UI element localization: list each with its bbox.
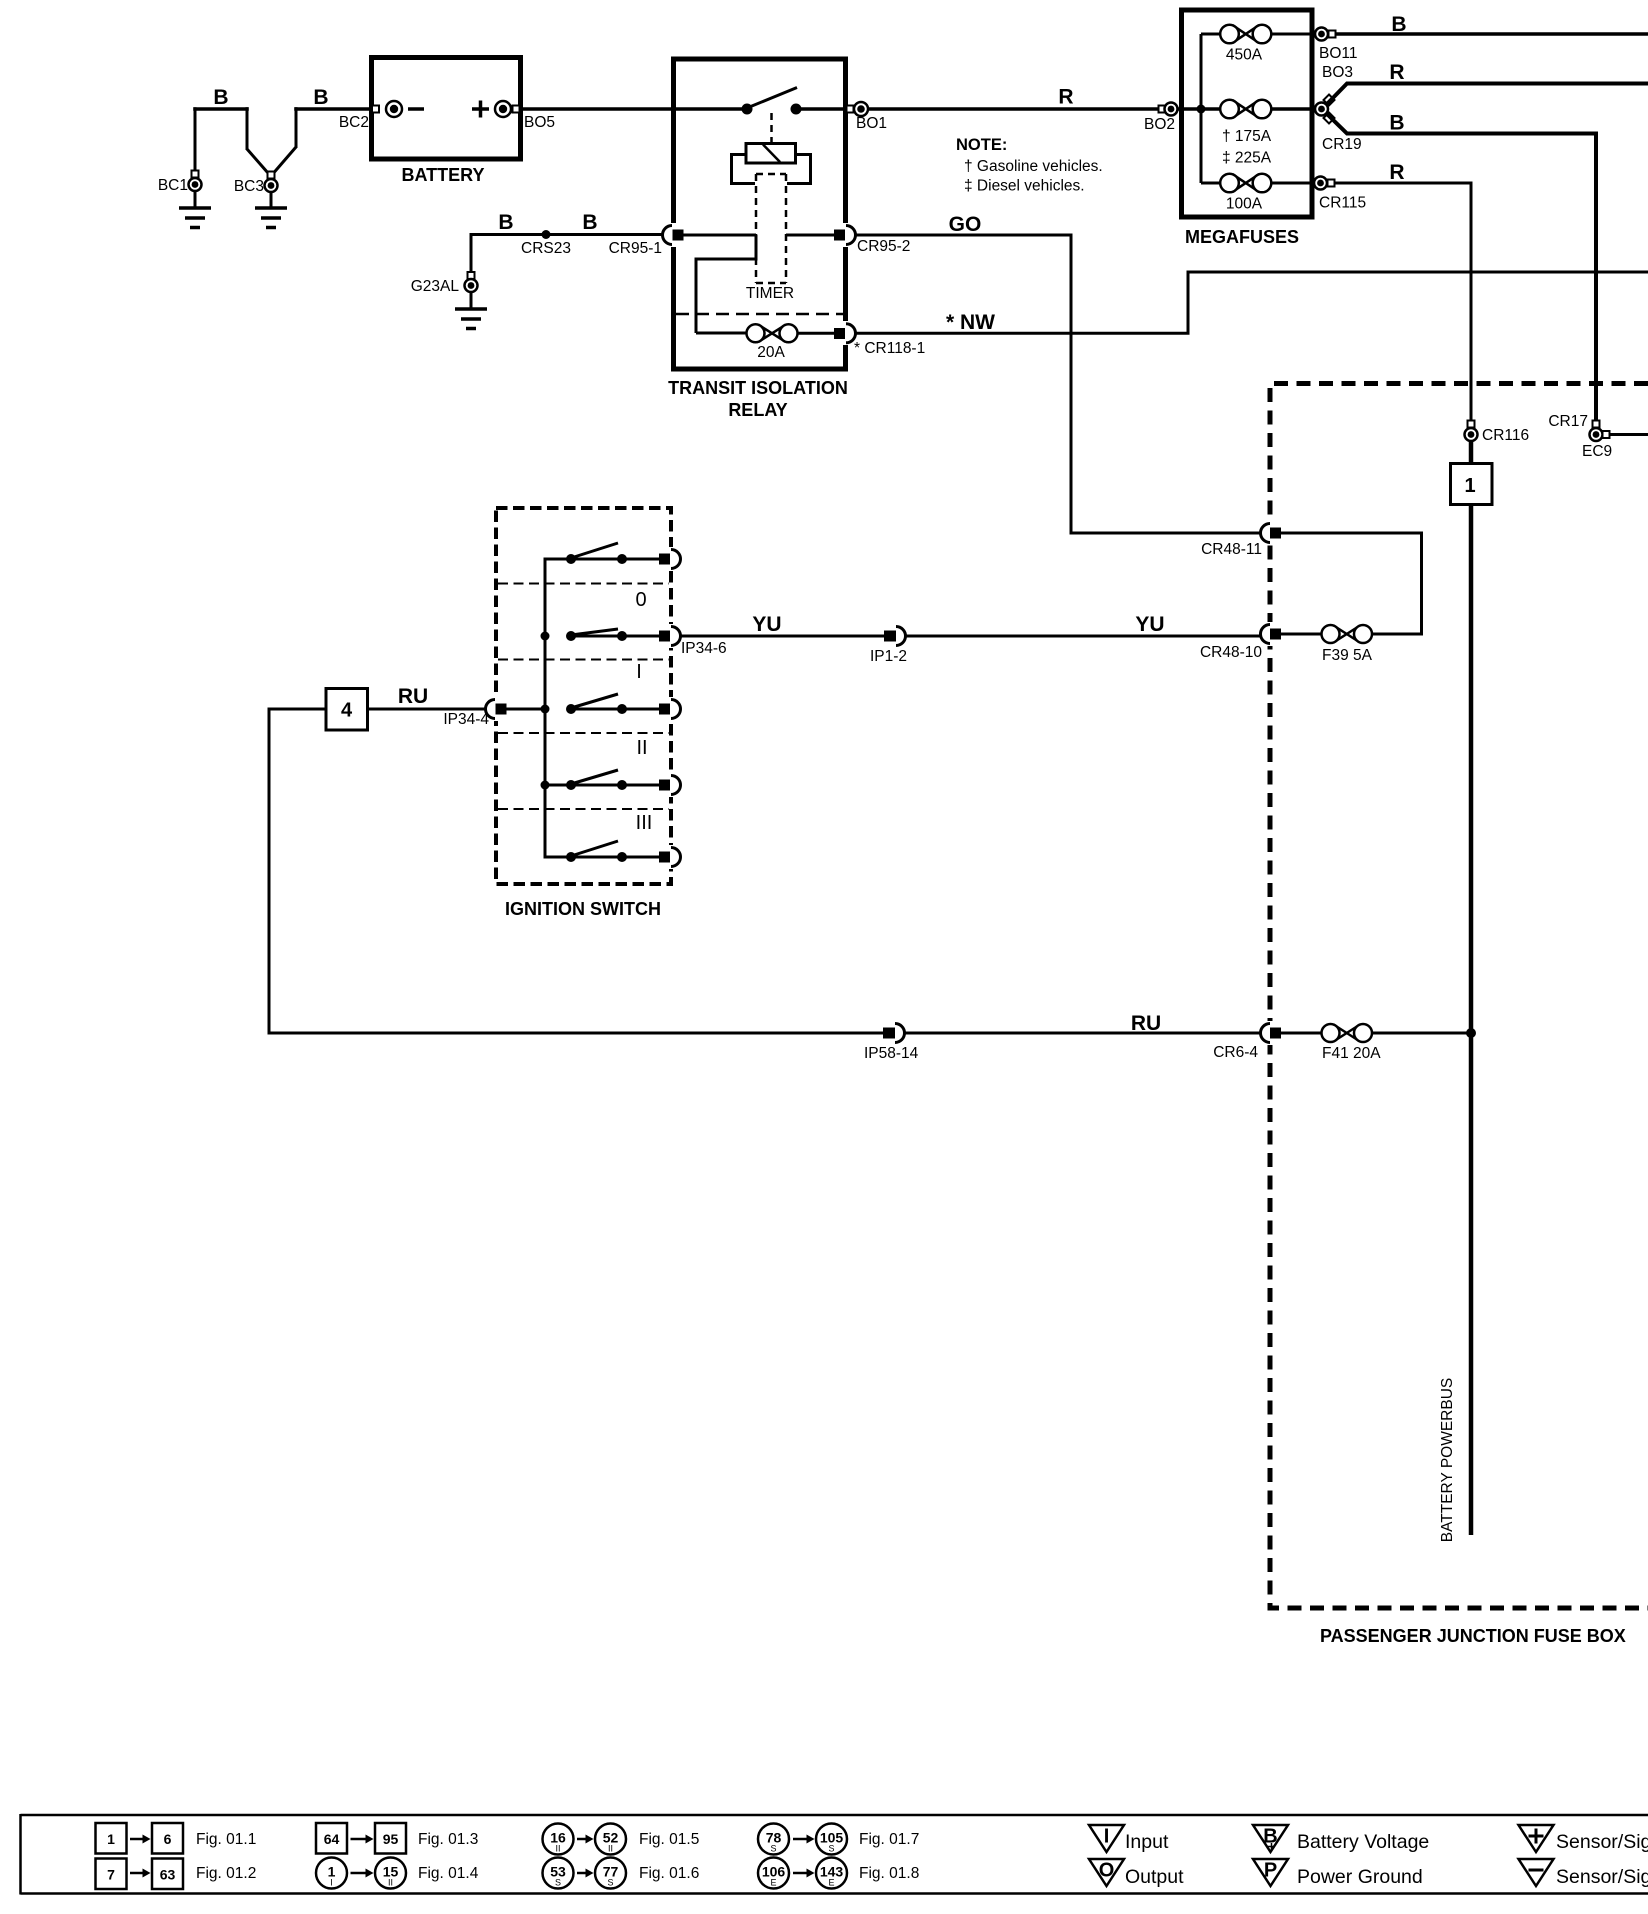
reference box 1 — [1451, 464, 1493, 505]
legend symbol output — [1089, 1859, 1184, 1888]
svg-text:1: 1 — [107, 1831, 115, 1847]
relay internal dashed separator — [676, 313, 843, 316]
svg-text:Sensor/Signal: Sensor/Signal — [1556, 1831, 1648, 1853]
svg-text:F39 5A: F39 5A — [1322, 647, 1373, 664]
wire CR48-11 loop to fuse F39 — [1281, 533, 1422, 634]
legend figure 01.1 — [96, 1823, 257, 1854]
svg-text:† Gasoline vehicles.: † Gasoline vehicles. — [964, 158, 1103, 175]
svg-text:I: I — [1104, 1826, 1110, 1848]
svg-text:YU: YU — [1135, 613, 1164, 636]
legend figure 01.2 — [96, 1859, 257, 1890]
svg-text:Fig. 01.8: Fig. 01.8 — [859, 1865, 919, 1882]
svg-text:MEGAFUSES: MEGAFUSES — [1185, 227, 1299, 247]
node B label (BO11 wire) — [1391, 13, 1406, 36]
svg-text:Output: Output — [1125, 1866, 1184, 1888]
wire F39 to CR48-10 — [1281, 633, 1322, 636]
ignition section separators — [498, 584, 669, 810]
connector CR19 — [1315, 64, 1362, 153]
svg-text:1: 1 — [1464, 475, 1475, 497]
svg-text:Sensor/Signal: Sensor/Signal — [1556, 1866, 1648, 1888]
wire battery to relay — [520, 107, 674, 111]
node megafuse bus junction — [1197, 34, 1206, 183]
legend symbol power ground — [1253, 1859, 1423, 1888]
svg-text:B: B — [1389, 112, 1404, 135]
svg-text:63: 63 — [160, 1867, 176, 1883]
terminal IP34-4 label — [443, 711, 489, 728]
ground G23AL — [455, 292, 487, 329]
connector IP1-2 — [870, 627, 907, 666]
svg-text:R: R — [1058, 86, 1073, 109]
connector BO2 — [1144, 103, 1178, 134]
svg-text:Fig. 01.2: Fig. 01.2 — [196, 1865, 256, 1882]
svg-text:IP58-14: IP58-14 — [864, 1045, 919, 1062]
svg-text:O: O — [1099, 1860, 1115, 1882]
wire YU IP34-6 to IP1-2 — [681, 635, 885, 638]
megafuses name label — [1185, 227, 1299, 247]
node R label (CR115 wire) — [1389, 161, 1404, 184]
connector CR115 — [1314, 177, 1366, 212]
svg-text:Fig. 01.3: Fig. 01.3 — [418, 1831, 478, 1848]
svg-text:II: II — [636, 737, 647, 759]
fuse F39 5A — [1322, 625, 1373, 664]
node YU label (left) — [752, 613, 781, 636]
fuse 175A/225A — [1220, 100, 1315, 167]
wire switch to BO1 — [796, 107, 846, 111]
svg-text:S: S — [770, 1844, 776, 1854]
svg-text:BC2: BC2 — [339, 114, 369, 131]
svg-text:64: 64 — [324, 1831, 340, 1847]
fuse F41 20A — [1281, 1024, 1381, 1062]
relay switch blade — [747, 88, 797, 109]
connector BC1 — [158, 171, 202, 195]
wire RU box4 loop to IP58-14 — [269, 709, 884, 1033]
node R label (BO1-BO2) — [1058, 86, 1073, 109]
svg-text:95: 95 — [383, 1831, 399, 1847]
svg-text:E: E — [828, 1878, 834, 1888]
connector CR118-1 — [834, 321, 925, 357]
legend symbol input — [1089, 1825, 1169, 1853]
wire B from BO11 — [1336, 32, 1648, 36]
wire R BO1 to BO2 — [868, 107, 1164, 111]
svg-text:IP1-2: IP1-2 — [870, 648, 907, 665]
svg-text:III: III — [636, 812, 653, 834]
svg-text:CR6-4: CR6-4 — [1213, 1044, 1258, 1061]
svg-text:EC9: EC9 — [1582, 443, 1612, 460]
node RU label (top) — [398, 685, 428, 708]
passenger junction fuse box label — [1320, 1626, 1626, 1646]
node RU label (bottom) — [1131, 1012, 1161, 1035]
wire R from CR19 — [1327, 84, 1648, 105]
svg-text:‡ Diesel vehicles.: ‡ Diesel vehicles. — [964, 178, 1085, 195]
svg-text:B: B — [213, 86, 228, 109]
ground BC1 — [179, 191, 211, 228]
node B label (BC1 cable) — [213, 86, 228, 109]
svg-text:† 175A: † 175A — [1222, 128, 1272, 145]
node B label (left of CRS23) — [498, 211, 513, 234]
note text — [956, 136, 1103, 195]
svg-text:RELAY: RELAY — [728, 400, 787, 420]
terminal IP34-6 label — [681, 640, 727, 657]
relay actuator dashed link — [770, 113, 773, 143]
svg-text:Input: Input — [1125, 1831, 1169, 1853]
svg-text:Battery Voltage: Battery Voltage — [1297, 1831, 1429, 1853]
node R label (BO3 wire) — [1389, 61, 1404, 84]
node B label (right of CRS23) — [582, 211, 597, 234]
svg-text:BC1: BC1 — [158, 177, 188, 194]
svg-text:S: S — [828, 1844, 834, 1854]
wire BO2 to bus — [1177, 107, 1222, 111]
ignition position labels — [635, 589, 652, 834]
svg-text:BO3: BO3 — [1322, 64, 1353, 81]
battery box — [372, 58, 521, 186]
wire NW from CR118-1 — [856, 272, 1648, 333]
fuse 20A — [747, 324, 798, 361]
svg-text:‡ 225A: ‡ 225A — [1222, 150, 1272, 167]
wire F41 to powerbus — [1371, 1028, 1476, 1038]
svg-text:NOTE:: NOTE: — [956, 136, 1007, 154]
ignition bus wire — [541, 558, 550, 859]
wire B from CR19 to CR17 — [1327, 114, 1596, 422]
svg-text:E: E — [770, 1878, 776, 1888]
node YU label (right) — [1135, 613, 1164, 636]
svg-text:BO11: BO11 — [1319, 45, 1358, 62]
svg-text:7: 7 — [107, 1867, 115, 1883]
connector G23AL — [411, 272, 478, 295]
svg-text:S: S — [607, 1878, 613, 1888]
svg-text:IP34-6: IP34-6 — [681, 640, 727, 657]
connector BO1 — [847, 102, 888, 132]
wire CR116 to box 1 — [1469, 441, 1474, 464]
svg-text:6: 6 — [164, 1831, 172, 1847]
wire R from CR115 to CR116 — [1335, 183, 1472, 422]
fuse 100A — [1220, 174, 1271, 213]
svg-text:4: 4 — [341, 700, 353, 722]
svg-text:Fig. 01.6: Fig. 01.6 — [639, 1865, 699, 1882]
legend symbol sensor signal minus — [1519, 1859, 1648, 1888]
svg-text:20A: 20A — [757, 344, 785, 361]
svg-text:G23AL: G23AL — [411, 278, 460, 295]
svg-text:* CR118-1: * CR118-1 — [854, 340, 925, 357]
svg-text:PASSENGER JUNCTION FUSE BOX: PASSENGER JUNCTION FUSE BOX — [1320, 1626, 1626, 1646]
ignition switch name label — [505, 899, 661, 919]
svg-text:B: B — [498, 211, 513, 234]
legend symbol battery voltage — [1253, 1825, 1429, 1853]
connector CR48-11 — [1201, 521, 1281, 558]
svg-text:CR19: CR19 — [1322, 136, 1362, 153]
legend figure 01.8 — [758, 1858, 919, 1889]
svg-text:P: P — [1264, 1860, 1277, 1882]
ignition switch dashed box — [496, 508, 671, 884]
connector BC3 — [234, 172, 278, 196]
svg-text:CR48-11: CR48-11 — [1201, 541, 1262, 558]
svg-text:Fig. 01.7: Fig. 01.7 — [859, 1831, 919, 1848]
svg-text:I: I — [330, 1878, 333, 1888]
legend figure 01.7 — [758, 1824, 919, 1855]
svg-text:F41 20A: F41 20A — [1322, 1045, 1381, 1062]
svg-text:TRANSIT ISOLATION: TRANSIT ISOLATION — [668, 378, 848, 398]
relay coil — [746, 144, 796, 164]
relay switch contacts — [742, 104, 802, 115]
svg-text:BC3: BC3 — [234, 178, 264, 195]
wire RU IP58-14 to CR6-4 — [905, 1032, 1262, 1035]
svg-text:RU: RU — [398, 685, 428, 708]
svg-text:B: B — [313, 86, 328, 109]
legend figure 01.6 — [543, 1858, 700, 1889]
svg-text:II: II — [388, 1878, 393, 1888]
svg-text:450A: 450A — [1226, 47, 1263, 64]
wire CR95-2 internal — [786, 234, 835, 237]
svg-text:CR48-10: CR48-10 — [1200, 644, 1262, 661]
connector CR6-4 — [1213, 1021, 1281, 1061]
wire 450A row — [1201, 33, 1315, 36]
terminal BC2 (battery negative) — [339, 101, 424, 131]
svg-text:I: I — [636, 661, 642, 683]
svg-text:IGNITION SWITCH: IGNITION SWITCH — [505, 899, 661, 919]
svg-text:CR116: CR116 — [1482, 427, 1529, 444]
ignition switch row II — [545, 770, 681, 797]
svg-text:BATTERY POWERBUS: BATTERY POWERBUS — [1439, 1378, 1456, 1543]
svg-text:CR95-1: CR95-1 — [609, 240, 662, 257]
svg-text:TIMER: TIMER — [746, 285, 794, 302]
connector BO11 — [1315, 28, 1358, 63]
wire B cable battery negative — [274, 107, 372, 172]
wire GO from CR95-2 to CR48-11 — [856, 235, 1262, 533]
svg-text:B: B — [1391, 13, 1406, 36]
wire B to CR95-1 with CRS23 splice — [470, 230, 663, 276]
svg-text:CR95-2: CR95-2 — [857, 238, 910, 255]
timer dashed outline — [756, 174, 786, 283]
svg-text:B: B — [1263, 1826, 1277, 1848]
svg-text:R: R — [1389, 161, 1404, 184]
wire B cable to BC1 — [193, 107, 249, 174]
node B label (CR19 wire) — [1389, 112, 1404, 135]
timer label — [746, 285, 794, 302]
wire 100A row — [1201, 182, 1315, 185]
node B label (BC2 cable) — [313, 86, 328, 109]
svg-text:R: R — [1389, 61, 1404, 84]
svg-text:RU: RU — [1131, 1012, 1161, 1035]
wire EC9 output — [1610, 433, 1648, 436]
wire battery powerbus — [1469, 505, 1474, 1536]
connector CR95-1 — [609, 223, 684, 257]
legend frame — [21, 1814, 1648, 1895]
wire V-drop to BC3 — [247, 107, 268, 173]
fuse 450A — [1220, 25, 1271, 64]
svg-text:0: 0 — [635, 589, 646, 611]
svg-text:CRS23: CRS23 — [521, 240, 571, 257]
svg-text:BATTERY: BATTERY — [402, 165, 485, 185]
svg-text:* NW: * NW — [946, 311, 995, 334]
svg-text:BO1: BO1 — [856, 115, 887, 132]
ignition switch row 0 (IP34-6) — [566, 624, 681, 648]
battery powerbus label — [1439, 1378, 1456, 1543]
svg-text:S: S — [555, 1878, 561, 1888]
svg-text:IP34-4: IP34-4 — [443, 711, 489, 728]
relay coil core bracket — [732, 155, 811, 184]
wire YU IP1-2 to CR48-10 — [906, 635, 1262, 638]
legend symbol sensor signal plus — [1519, 1825, 1648, 1853]
ignition switch row top — [545, 543, 681, 571]
svg-text:BO5: BO5 — [524, 114, 555, 131]
svg-text:Fig. 01.5: Fig. 01.5 — [639, 1831, 699, 1848]
legend figure 01.5 — [543, 1824, 700, 1855]
legend figure 01.3 — [316, 1823, 478, 1854]
connector CR48-10 — [1200, 622, 1281, 661]
svg-text:CR17: CR17 — [1548, 413, 1588, 430]
svg-text:Fig. 01.1: Fig. 01.1 — [196, 1831, 256, 1848]
connector IP58-14 — [864, 1024, 919, 1063]
node NW label — [946, 311, 995, 334]
connector CR116 — [1465, 421, 1530, 445]
connector CR95-2 — [834, 223, 910, 255]
svg-text:GO: GO — [949, 213, 982, 236]
wire RU box4 to IP34-4 — [368, 708, 488, 711]
legend figure 01.4 — [316, 1858, 479, 1889]
node GO label — [949, 213, 982, 236]
svg-text:100A: 100A — [1226, 196, 1263, 213]
svg-text:Power Ground: Power Ground — [1297, 1866, 1423, 1888]
wire CR95-1 to timer — [684, 235, 758, 333]
ignition switch row III — [545, 841, 681, 869]
ignition switch row I (IP34-4) — [486, 694, 681, 721]
ground BC3 — [255, 192, 287, 228]
relay name label — [668, 378, 848, 420]
svg-text:B: B — [582, 211, 597, 234]
reference box 4 — [326, 689, 368, 731]
megafuses box — [1182, 10, 1313, 217]
wire fuse to CR118-1 — [797, 332, 835, 335]
svg-text:II: II — [555, 1844, 560, 1854]
svg-text:II: II — [608, 1844, 613, 1854]
svg-text:YU: YU — [752, 613, 781, 636]
wire into relay switch — [676, 107, 747, 111]
connector CR17 / EC9 — [1548, 413, 1612, 460]
svg-text:BO2: BO2 — [1144, 116, 1175, 133]
svg-text:CR115: CR115 — [1319, 195, 1366, 212]
svg-text:Fig. 01.4: Fig. 01.4 — [418, 1865, 479, 1882]
passenger junction fuse box dashed border — [1270, 384, 1648, 1609]
terminal BO5 (battery positive) — [472, 101, 555, 132]
transit isolation relay box — [674, 59, 846, 369]
